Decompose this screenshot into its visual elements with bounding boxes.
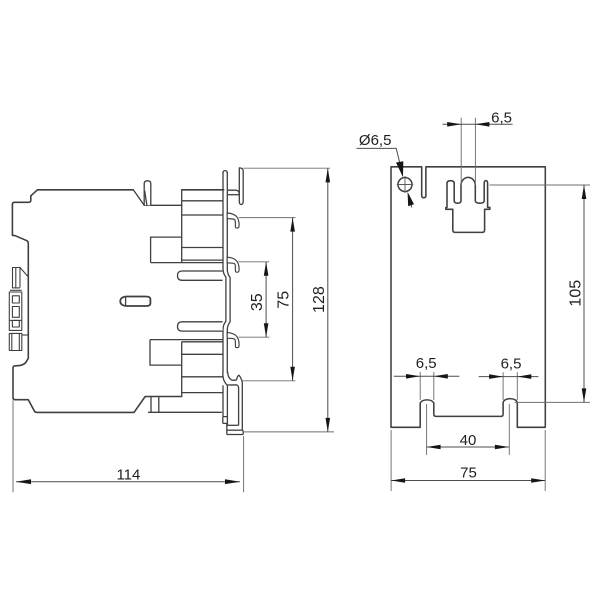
dim line 6,5 bottom right [479, 376, 539, 378]
claw inner left wall [226, 386, 228, 426]
claw outer left wall [222, 385, 224, 416]
upper clip outline [13, 268, 28, 289]
svg-text:6,5: 6,5 [491, 109, 512, 126]
ext line dim128 bottom [243, 431, 334, 433]
lower clip link to body [22, 334, 29, 336]
arrowhead hole leader upper [396, 161, 403, 177]
svg-text:Ø6,5: Ø6,5 [359, 132, 392, 149]
hole crosshair horizontal [397, 184, 413, 186]
plate right edge with bulge [227, 172, 230, 373]
claw lip left edge [226, 423, 228, 434]
claw neck right curve [228, 372, 237, 380]
ext line dim114 left [12, 401, 14, 493]
middle clip divider [9, 319, 21, 321]
svg-text:6,5: 6,5 [501, 356, 522, 373]
extension lines [13, 118, 590, 493]
lower clip inner line 1 [11, 333, 13, 350]
arrowhead hole leader lower [408, 192, 415, 207]
side view: top edge right part [182, 189, 224, 191]
ext line dim105 bottom [515, 401, 590, 403]
arrowhead 105 top [582, 185, 587, 199]
arrowhead 114 left [16, 479, 31, 484]
ext line dim35 bottom [239, 336, 270, 338]
side view: lower spring claw [223, 372, 243, 435]
claw pocket bottom [227, 424, 239, 426]
side view: top edge left part [38, 189, 134, 191]
arrowhead 35 top [264, 262, 269, 276]
side view: DIN-rail mounting plate [223, 171, 230, 373]
claw left step box [223, 417, 227, 424]
svg-text:114: 114 [116, 466, 140, 483]
middle clip body [9, 292, 21, 330]
side view: small top tab [144, 181, 151, 206]
ext line slot left b [433, 372, 435, 400]
claw inner right wall [238, 389, 240, 426]
claw neck left curve [223, 372, 228, 385]
upper clip inner line 1 [15, 268, 17, 288]
ext line dim35 top [239, 261, 270, 263]
side view: connector plate to flange [227, 190, 239, 195]
dim line 75 left [292, 218, 294, 381]
leader tail below hole [409, 195, 412, 208]
hole crosshair vertical [404, 176, 406, 193]
ext line dim75b left [390, 430, 392, 491]
lower terminal block line 1 [182, 353, 223, 355]
arrowheads [16, 122, 586, 484]
claw lip right corner [241, 430, 244, 434]
side view: cross bars on plate [178, 271, 223, 331]
ext line dim114 right [243, 436, 245, 492]
lower clip body [9, 333, 21, 350]
dim line 35 [265, 262, 267, 337]
ext line slot right b [516, 372, 518, 400]
arrowhead 6,5br right [517, 374, 531, 379]
ext line slot left a [419, 372, 421, 400]
middle clip window 2 [12, 307, 19, 318]
upper clip bottom [13, 287, 21, 289]
ext line dim6,5 top right [474, 118, 476, 185]
dimension texts [116, 109, 584, 483]
side view: diagonal into top recess [133, 190, 144, 206]
lower clip inner line 2 [18, 333, 20, 350]
lower terminal block left box [150, 340, 182, 366]
bottom rear small vertical 2 [158, 397, 160, 413]
side view: rail hook fingers [227, 213, 239, 348]
arrowhead 105 bottom [582, 388, 587, 402]
dim line 128 [327, 168, 329, 432]
ext line dim75 bottom [243, 380, 296, 382]
claw pocket top [227, 385, 238, 389]
cross bar 2 [178, 322, 223, 331]
svg-text:75: 75 [276, 291, 293, 309]
arrowhead 75 bottom [290, 367, 295, 381]
arrowhead 114 right [225, 479, 240, 484]
side view: upper terminal block [151, 190, 223, 263]
hook finger 1 [227, 213, 239, 228]
dim line 114 [16, 481, 240, 483]
svg-text:105: 105 [568, 280, 585, 307]
side view: coil terminal clips on left face [9, 268, 28, 351]
lower terminal block line 3 [182, 392, 223, 394]
svg-text:6,5: 6,5 [416, 355, 437, 372]
ext line dim75 top [239, 217, 296, 219]
bottom rear edge [148, 411, 222, 413]
side view: top recess line [144, 204, 182, 206]
arrowhead 40 right [495, 445, 509, 450]
lower terminal block top line 2 [182, 341, 223, 343]
rear view: mounting hole 6,5 [397, 176, 413, 193]
dim line 40 [427, 446, 509, 448]
dim line 75 bottom [391, 480, 545, 482]
side view: lower terminal block [148, 340, 223, 413]
arrowhead 6,5br left [489, 374, 503, 379]
arrowhead 40 left [427, 445, 441, 450]
upper terminal block line 2 [182, 214, 223, 216]
upper terminal block bottom line [151, 262, 223, 264]
plate left edge with bulge [223, 172, 226, 372]
svg-text:128: 128 [311, 286, 328, 313]
arrowhead 6,5top right [475, 122, 489, 127]
svg-text:75: 75 [460, 464, 477, 481]
ext line dim40 left [426, 404, 428, 455]
arrowhead 75b left [391, 478, 405, 483]
side view: tab inner slant line [145, 191, 147, 206]
dimension lines [16, 124, 584, 481]
claw tooth [236, 375, 242, 381]
svg-text:40: 40 [460, 432, 477, 449]
upper terminal block left box [151, 237, 182, 263]
upper terminal block line 3 [182, 247, 223, 249]
arrowhead 6,5bl left [406, 374, 420, 379]
upper terminal block front edge [181, 190, 183, 263]
arrowhead 35 bottom [264, 323, 269, 337]
rear view: DIN clip crown [446, 177, 490, 232]
side view: top flange strip [239, 168, 243, 205]
ext line dim40 right [508, 404, 510, 455]
lower terminal block top line [150, 339, 223, 341]
arrowhead 6,5top left [447, 122, 461, 127]
cross bar 1 [178, 271, 223, 280]
arrowhead 128 bottom [326, 418, 331, 432]
leader line hole label [357, 148, 403, 172]
arrowhead 75b right [531, 478, 545, 483]
rear view: outline with keyhole slot and bottom feet [391, 167, 545, 428]
clip step line [10, 289, 22, 291]
upper terminal block line 4 [182, 259, 223, 261]
ext line dim75b right [544, 430, 546, 491]
side view: lever slot (pill shaped hole) [120, 297, 150, 307]
ext line dim128 top [243, 167, 330, 169]
ext line slot right a [502, 372, 504, 400]
ext line dim105 top [490, 184, 591, 186]
side view: outer body contour [12, 190, 223, 413]
middle clip window 3 [12, 320, 19, 327]
lower terminal block front edge [181, 342, 183, 397]
dim line 6,5 top [443, 123, 513, 125]
dim line 105 [583, 185, 585, 402]
arrowhead 128 top [326, 168, 331, 182]
claw outer right wall [241, 381, 243, 430]
claw lip mid line [227, 429, 243, 431]
hook finger 2 [227, 257, 239, 272]
upper terminal block line 1 [182, 200, 223, 202]
upper clip inner line 2 [19, 268, 21, 288]
hook finger 3 [227, 333, 239, 348]
middle clip window 1 [12, 296, 19, 303]
arrowhead 75 top [290, 218, 295, 232]
lower terminal block line 2 [182, 376, 223, 378]
claw bottom edge [227, 434, 243, 436]
dim line 6,5 bottom left [394, 375, 460, 377]
plate rounded top cap [223, 171, 227, 173]
bottom rear small vertical 1 [150, 397, 152, 413]
svg-text:35: 35 [249, 293, 266, 311]
ext line dim6,5 top left [460, 118, 462, 185]
arrowhead 6,5bl right [434, 374, 448, 379]
